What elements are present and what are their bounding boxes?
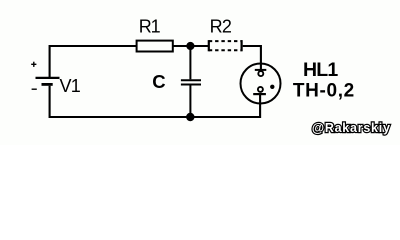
wire R1 to node A [173, 45, 191, 47]
svg-text:HL1: HL1 [303, 59, 338, 81]
capacitor C top plate [181, 79, 201, 81]
lamp bottom electrode bar [253, 93, 266, 95]
neon lamp HL1 envelope circle [241, 64, 281, 104]
svg-text:R1: R1 [139, 16, 161, 36]
lamp gas-fill dot [270, 85, 274, 89]
node B junction dot [186, 113, 194, 121]
lamp top electrode bar [255, 69, 266, 71]
capacitor C wire from node A [189, 46, 191, 79]
capacitor C wire to node B [189, 86, 191, 118]
node A junction dot [186, 42, 194, 50]
wire lamp bottom to bottom rail back to node B [190, 95, 260, 118]
svg-text:R2: R2 [210, 16, 232, 36]
lamp bottom electrode ring [258, 87, 263, 92]
resistor R1 [137, 41, 173, 52]
svg-text:@Rakarskiy: @Rakarskiy [312, 121, 391, 135]
svg-text:V1: V1 [60, 76, 81, 96]
svg-text:TH-0,2: TH-0,2 [293, 80, 355, 101]
svg-text:C: C [152, 71, 165, 92]
wire battery negative to bottom rail [50, 86, 190, 117]
wire R2 to lamp [243, 46, 261, 70]
lamp top electrode ring [258, 71, 263, 76]
wire top-left from battery to R1 [50, 46, 137, 78]
battery plus label [31, 62, 36, 67]
battery V1 negative plate [42, 83, 53, 86]
battery minus label [32, 88, 37, 90]
resistor R2 (dashed body) [209, 40, 242, 51]
capacitor C bottom plate [181, 84, 201, 86]
battery V1 positive plate [36, 77, 60, 79]
wire node A to R2 [190, 45, 208, 47]
